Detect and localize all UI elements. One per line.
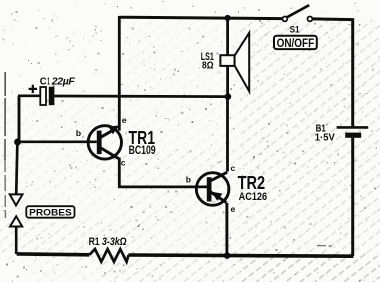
svg-text:c: c <box>231 163 236 173</box>
svg-text:e: e <box>231 204 236 214</box>
svg-text:AC126: AC126 <box>239 191 268 203</box>
svg-text:S1: S1 <box>290 24 301 35</box>
svg-text:PROBES: PROBES <box>29 208 71 218</box>
svg-text:R1: R1 <box>89 236 100 248</box>
svg-text:1·5V: 1·5V <box>315 132 335 144</box>
svg-text:BC109: BC109 <box>129 145 156 157</box>
svg-text:b: b <box>76 128 81 138</box>
svg-text:c: c <box>121 157 126 167</box>
svg-text:22µF: 22µF <box>51 75 76 87</box>
svg-text:1: 1 <box>47 76 50 87</box>
svg-text:C: C <box>40 76 47 87</box>
svg-text:ON/OFF: ON/OFF <box>277 36 315 50</box>
svg-text:3-3kΩ: 3-3kΩ <box>102 236 127 248</box>
svg-text:8Ω: 8Ω <box>202 59 214 71</box>
svg-text:e: e <box>122 115 127 125</box>
svg-text:b: b <box>186 175 191 185</box>
